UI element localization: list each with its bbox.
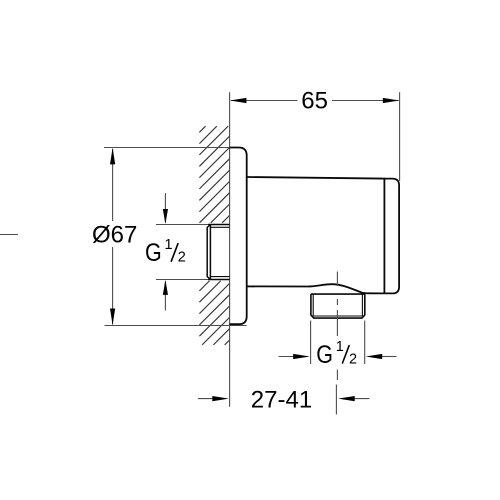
svg-text:G: G (145, 238, 162, 266)
rosette wall flange (230, 148, 247, 325)
inlet thread bottom edge (208, 279, 230, 281)
body bottom edge with outlet boss fairing (247, 284, 385, 293)
G 1/2 bottom left arrowhead (293, 354, 310, 359)
outlet nipple bottom edge with chamfers (311, 315, 365, 318)
outlet left extension line (310, 321, 312, 365)
dia 67 dimension line lower segment (112, 247, 114, 325)
G 1/2 left bottom arrow line (164, 281, 166, 310)
end cap left edge (383, 178, 385, 294)
G 1/2 left top arrow line (164, 193, 166, 222)
G 1/2 left top arrowhead (163, 209, 168, 224)
body centerline stub at left edge (0, 234, 18, 236)
svg-text:2: 2 (349, 351, 357, 367)
inlet thread top crest line (210, 226, 229, 228)
dia 67 bottom arrowhead (110, 309, 115, 326)
svg-text:27-41: 27-41 (251, 387, 312, 414)
G 1/2 left label (145, 237, 186, 266)
dimension 27-41 right arrow line (353, 398, 369, 400)
dimension 27-41 right extension line (335, 385, 337, 415)
body top edge (247, 177, 385, 179)
dimension 65 left arrowhead (230, 98, 247, 103)
wall face extension line (229, 92, 231, 407)
dimension 27-41 right arrowhead (338, 396, 355, 401)
outlet thread right crest line (361, 294, 363, 316)
outlet centerline segment 1 (336, 272, 338, 287)
outlet thread left crest line (312, 294, 314, 316)
G 1/2 bottom right arrowhead (366, 354, 383, 359)
svg-text:2: 2 (178, 250, 186, 266)
G 1/2 bottom right arrow line (381, 356, 397, 358)
inlet top extension line (156, 224, 208, 226)
outlet nipple left edge (310, 294, 312, 315)
dimension 65 line right segment (332, 100, 399, 102)
end cap outline (384, 179, 399, 294)
inlet thread face chamfer (207, 225, 210, 280)
dia 67 bottom extension line (105, 325, 247, 327)
G 1/2 left bottom arrowhead (163, 280, 168, 295)
outlet centerline segment 2 (336, 299, 338, 305)
G 1/2 bottom left arrow line (279, 356, 295, 358)
inlet bottom extension line (156, 279, 208, 281)
dimension 65 right extension line (399, 92, 401, 181)
outlet right extension line (364, 321, 366, 365)
dimension 27-41 left arrowhead (212, 396, 229, 401)
svg-text:G: G (316, 340, 333, 368)
dimension 27-41 left arrow line (198, 398, 215, 400)
outlet centerline segment 4 (336, 370, 338, 381)
dia 67 top arrowhead (110, 148, 115, 165)
svg-text:1: 1 (336, 339, 344, 355)
inlet thread inner face line (209, 225, 211, 280)
dia 67 top extension line (104, 147, 230, 149)
svg-text:Ø67: Ø67 (92, 222, 137, 249)
svg-text:65: 65 (301, 88, 328, 115)
outlet nipple right edge (364, 294, 366, 315)
G 1/2 bottom label (316, 339, 357, 368)
outlet nipple top edge (311, 293, 365, 295)
inlet thread bottom crest line (210, 276, 229, 278)
dimension 65 right arrowhead (383, 98, 400, 103)
dia 67 dimension line upper segment (112, 149, 114, 221)
outlet centerline segment 3 (336, 310, 338, 336)
inlet thread top edge (208, 224, 230, 226)
svg-text:1: 1 (165, 237, 173, 253)
wall hatching (199, 126, 229, 345)
dimension 65 line left segment (231, 100, 298, 102)
outlet thread bottom crest line (313, 315, 362, 317)
